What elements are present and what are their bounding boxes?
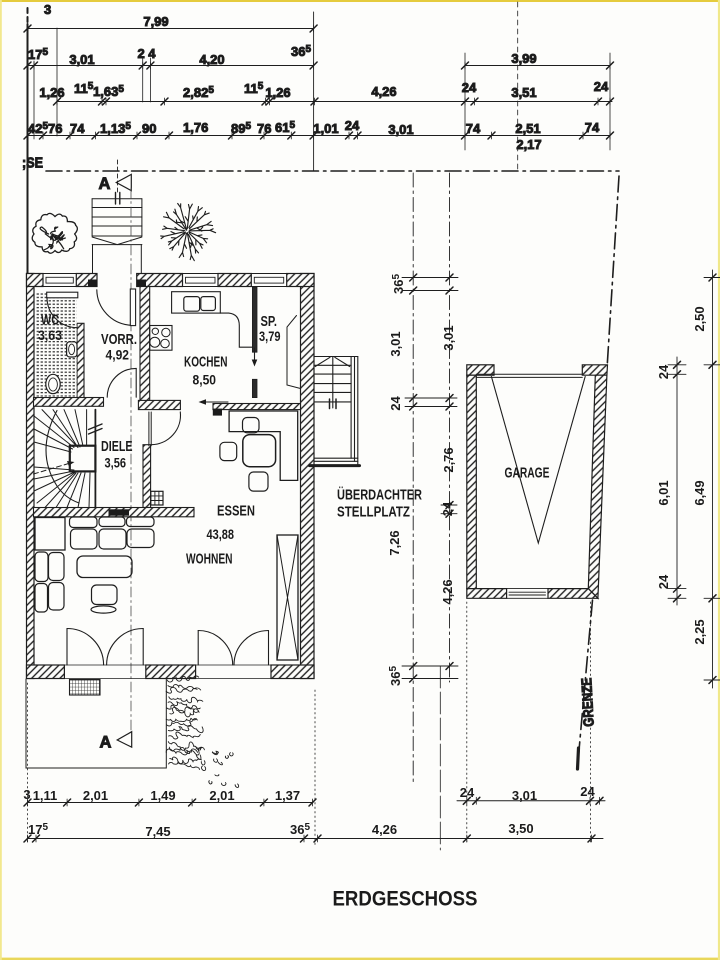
svg-text:GRENZE: GRENZE	[579, 677, 598, 727]
svg-text:A: A	[99, 175, 111, 193]
garage top-left stub	[467, 365, 494, 375]
svg-text:74: 74	[466, 121, 481, 136]
WC door leaf	[47, 292, 78, 298]
garage V mark	[491, 377, 585, 544]
dining chair top	[243, 418, 260, 433]
top wall piece 4	[218, 274, 251, 287]
top wall piece 2	[76, 274, 97, 287]
yellow border bottom	[0, 958, 720, 960]
svg-text:90: 90	[142, 121, 156, 136]
bottom wall piece 1	[27, 665, 65, 679]
svg-text:4,20: 4,20	[199, 52, 224, 67]
garage left wall	[467, 375, 477, 588]
garage door front lines	[476, 374, 582, 377]
svg-text:4,92: 4,92	[106, 347, 130, 363]
top wall piece 1	[27, 274, 44, 287]
dining table	[243, 435, 276, 467]
property line right diagonal upper	[607, 176, 619, 364]
stair arrow dashed	[34, 463, 73, 475]
entrance door jamb dark right	[137, 280, 146, 287]
guide vertical x=57	[56, 28, 58, 136]
entrance door leaf	[130, 289, 135, 326]
entrance door jamb dark left	[88, 280, 97, 287]
bottom wall piece 2	[146, 665, 196, 679]
svg-text:GARAGE: GARAGE	[505, 465, 550, 482]
garage rear door lines	[507, 589, 548, 599]
svg-text:2,51: 2,51	[515, 121, 540, 136]
guide verticals dotted	[28, 602, 591, 845]
tv chair	[92, 585, 118, 605]
boundary end bar	[578, 748, 579, 769]
svg-text:STELLPLATZ: STELLPLATZ	[337, 505, 410, 521]
corner table	[35, 518, 65, 551]
terrace outline	[26, 679, 166, 768]
doormat	[70, 680, 101, 696]
walkway steps	[92, 199, 142, 245]
newel post	[70, 446, 96, 472]
SP door arrow	[254, 348, 256, 363]
stair walk line	[46, 411, 79, 504]
kitchen pass arrow	[201, 401, 228, 403]
french door 2 right leaf+arc	[268, 631, 270, 666]
garage bottom wall right	[548, 589, 598, 599]
svg-text:1,26: 1,26	[39, 85, 64, 100]
window kitchen	[183, 274, 219, 287]
kitchen pass sill dark	[213, 409, 222, 416]
ticks chain left	[410, 274, 417, 682]
sideboard with X	[277, 535, 298, 660]
svg-text:24: 24	[460, 785, 475, 800]
svg-text:74: 74	[585, 120, 600, 135]
svg-text:ÜBERDACHTER: ÜBERDACHTER	[337, 487, 422, 504]
svg-text:24: 24	[656, 364, 671, 379]
svg-text:3,99: 3,99	[511, 51, 536, 66]
svg-text:4,26: 4,26	[372, 822, 397, 837]
bottom line 3 y=838.5	[28, 838, 604, 840]
walkway path to door	[92, 245, 94, 278]
sofa left seats	[49, 553, 65, 581]
svg-text:3,01: 3,01	[512, 788, 537, 803]
svg-text:4,26: 4,26	[440, 579, 455, 604]
stove counter	[150, 326, 172, 351]
upper treads fan	[34, 410, 83, 452]
ticks outer chain	[709, 274, 716, 684]
svg-text:3: 3	[23, 787, 30, 802]
washing machine / shaft	[151, 491, 163, 505]
svg-text:2,50: 2,50	[692, 306, 707, 331]
wall VORR/KOCHEN	[140, 287, 150, 402]
svg-text:3,56: 3,56	[105, 455, 127, 471]
chain line right x=449.5	[449, 173, 451, 682]
WC door arc	[47, 298, 77, 328]
dim line 3,99 y=65.5 right	[462, 62, 614, 69]
WC tiled floor	[36, 292, 77, 397]
tick guide verticals	[28, 25, 314, 32]
stair cut mark	[89, 424, 103, 434]
DIELE-ESSEN door arc	[151, 412, 180, 445]
stair boundary	[94, 410, 96, 508]
svg-text:4,26: 4,26	[371, 84, 396, 99]
svg-text:2,76: 2,76	[441, 447, 456, 472]
stair landing edge dark	[310, 464, 360, 467]
french door 1 left leaf+arc	[66, 629, 68, 666]
bottom line 1 (house) y=802.5	[28, 802, 314, 804]
window pantry	[251, 274, 286, 287]
svg-text:24: 24	[388, 396, 403, 411]
svg-text:7,45: 7,45	[145, 824, 170, 839]
svg-text:43,88: 43,88	[207, 526, 235, 542]
svg-text:3,01: 3,01	[69, 52, 94, 67]
ticks garage chain	[674, 361, 681, 602]
svg-text:3,51: 3,51	[511, 85, 536, 100]
VORR-DIELE door arc	[107, 368, 136, 397]
garage top-right stub	[582, 365, 607, 375]
svg-text:7,26: 7,26	[387, 530, 402, 555]
svg-text:3,50: 3,50	[508, 821, 533, 836]
walkway taper V	[92, 237, 142, 245]
svg-text:2,01: 2,01	[83, 788, 108, 803]
counter L return	[220, 313, 252, 347]
lower treads fan	[34, 467, 90, 508]
svg-text:3,79: 3,79	[259, 328, 281, 344]
wall DIELE/ESSEN vertical	[143, 445, 151, 508]
step start mark	[116, 193, 120, 205]
svg-text:DIELE: DIELE	[101, 439, 133, 455]
french door 1 right leaf+arc	[142, 629, 144, 666]
svg-text:3,01: 3,01	[388, 122, 413, 137]
property line top	[46, 170, 619, 172]
svg-text:76: 76	[48, 121, 62, 136]
svg-text:3: 3	[44, 2, 51, 17]
svg-text:1,49: 1,49	[150, 788, 175, 803]
svg-text:ERDGESCHOSS: ERDGESCHOSS	[333, 888, 478, 911]
svg-text:2,17: 2,17	[516, 137, 541, 152]
section line A-A	[130, 188, 132, 730]
footstool oval	[91, 606, 116, 613]
sink counter	[172, 292, 221, 313]
svg-text:24: 24	[345, 118, 360, 133]
svg-text:WOHNEN: WOHNEN	[186, 551, 233, 568]
svg-text:24: 24	[440, 501, 455, 516]
svg-text:6,49: 6,49	[692, 480, 707, 505]
svg-text:1,11: 1,11	[33, 788, 58, 803]
crossbars right chains	[668, 278, 720, 681]
chain garage x=677	[676, 357, 678, 605]
yellow border right	[718, 0, 720, 960]
chain line left x=413	[412, 173, 414, 782]
SP shelf line	[287, 316, 301, 389]
sofa seats top row	[71, 529, 98, 549]
svg-text:6,01: 6,01	[656, 480, 671, 505]
dim line 7,99 y=28.5	[24, 25, 317, 32]
svg-text:2 4: 2 4	[137, 46, 156, 61]
wall below WC (stair top)	[34, 398, 104, 407]
WC toilet	[46, 374, 60, 393]
svg-text:3,01: 3,01	[388, 331, 403, 356]
svg-text:2,01: 2,01	[209, 788, 234, 803]
dim line 17.5/3,01/24/4,20/36.5 y=65.5	[24, 61, 317, 139]
sofa back cushions top row	[70, 517, 98, 528]
svg-text:24: 24	[580, 784, 595, 799]
svg-text:8,50: 8,50	[193, 372, 217, 388]
dining chair left	[220, 442, 237, 460]
wall WC/VORR	[77, 323, 84, 398]
WC washbasin	[67, 342, 77, 357]
svg-text:1,01: 1,01	[313, 121, 338, 136]
entrance door arc	[97, 290, 131, 325]
dining chair bottom	[249, 472, 268, 491]
yellow border top	[0, 0, 720, 2]
coffee table	[77, 556, 132, 578]
bottom line 2 (garage) y=800.8	[457, 800, 605, 802]
svg-text:A: A	[100, 734, 112, 752]
long dim line y=101.5	[54, 98, 614, 105]
guide vertical x=313.6	[313, 12, 315, 171]
svg-text:24: 24	[462, 80, 477, 95]
sink basin 1	[184, 297, 200, 312]
svg-text:3,63: 3,63	[38, 327, 62, 343]
sink basin 2	[201, 297, 216, 311]
garage right wall	[588, 375, 607, 598]
wall kitchen bottom right piece	[213, 404, 301, 410]
svg-text:2,25: 2,25	[692, 619, 707, 644]
tree right (branch burst)	[161, 204, 216, 261]
corner bench L	[229, 411, 298, 480]
wall DIELE bottom	[34, 508, 195, 517]
tree left (cloud)	[32, 213, 77, 253]
wall KOCHEN/SP upper	[252, 287, 257, 352]
svg-text:VORR.: VORR.	[101, 331, 137, 348]
sofa left backs	[35, 552, 48, 582]
bottom wall piece 3	[271, 665, 314, 679]
wall KOCHEN/SP lower	[252, 379, 257, 397]
garden path scribble	[166, 676, 239, 787]
top wall piece 5	[287, 274, 314, 287]
DIELE-ESSEN door leaf	[149, 412, 151, 446]
threshold lines french doors	[64, 665, 271, 679]
left boundary vertical line x=27.5	[27, 8, 29, 278]
guide vertical x=465	[464, 53, 466, 150]
guide line x=440 lower	[439, 666, 441, 850]
svg-text:7,99: 7,99	[143, 14, 168, 29]
left wall	[27, 274, 35, 679]
crossbars	[402, 278, 458, 679]
wall kitchen bottom left piece	[138, 400, 180, 409]
stair inner vertical	[86, 410, 88, 446]
guide verticals 24-ticks x=142.7,150.4	[142, 58, 144, 102]
ticks chain right	[446, 274, 453, 670]
chain outer x=712.5	[712, 270, 714, 688]
svg-text:24: 24	[656, 574, 671, 589]
top wall piece 3	[137, 274, 183, 287]
svg-text:;SE: ;SE	[22, 155, 43, 172]
svg-text:1,37: 1,37	[275, 788, 300, 803]
walkway axis dashes	[117, 160, 119, 193]
burners	[152, 328, 158, 334]
svg-text:ESSEN: ESSEN	[217, 503, 255, 520]
svg-text:1,26: 1,26	[265, 85, 290, 100]
door sill dark DIELE	[109, 509, 130, 515]
svg-text:KOCHEN: KOCHEN	[184, 354, 228, 371]
svg-text:74: 74	[70, 121, 85, 136]
yellow border left	[0, 0, 2, 960]
dashed guide vertical x=517.7	[517, 2, 519, 170]
french door 2 left leaf+arc	[197, 631, 199, 666]
window WC	[43, 274, 76, 287]
guide vertical x=610	[609, 53, 611, 150]
right wall	[301, 274, 315, 679]
svg-text:24: 24	[594, 79, 609, 94]
svg-text:3,01: 3,01	[441, 325, 456, 350]
long dim line y=135.5	[24, 132, 614, 139]
garage bottom wall left	[467, 589, 507, 599]
property line right diagonal lower	[578, 600, 593, 767]
svg-text:1,76: 1,76	[183, 120, 208, 135]
